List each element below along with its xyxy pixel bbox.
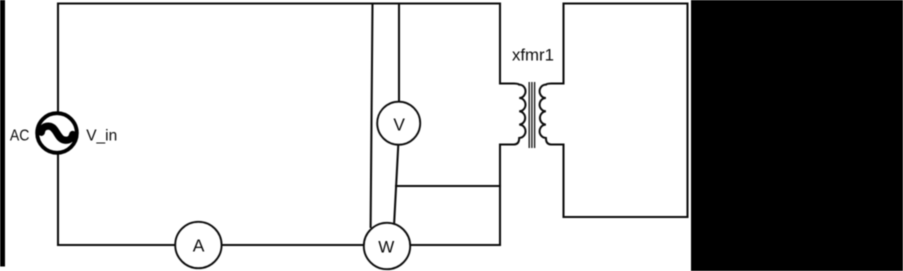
- ammeter A1: [175, 222, 221, 268]
- svg-text:AC: AC: [10, 128, 30, 145]
- wire node connector: [396, 185, 500, 187]
- wire bottom source to ammeter: [58, 244, 175, 246]
- wire wattmeter current tap: [371, 4, 373, 228]
- voltmeter V1: [377, 102, 420, 145]
- wire primary top vertical: [499, 4, 501, 84]
- wire secondary loop: [564, 4, 688, 218]
- svg-text:V_in: V_in: [86, 127, 117, 144]
- svg-text:xfmr1: xfmr1: [512, 46, 554, 65]
- transformer xfmr1 primary winding: [500, 84, 526, 145]
- transformer xfmr1 secondary winding: [540, 84, 564, 145]
- wire top bus: [58, 2, 500, 4]
- wire primary bottom vertical: [499, 145, 501, 246]
- wire ammeter to wattmeter: [222, 244, 364, 246]
- wire voltmeter bottom to wattmeter: [394, 145, 398, 226]
- transformer xfmr1 core: [529, 82, 534, 148]
- wattmeter W1: [364, 223, 410, 269]
- svg-text:A: A: [193, 236, 205, 256]
- wire left vertical upper: [57, 4, 59, 113]
- AC source V_in: [37, 113, 77, 153]
- svg-text:W: W: [378, 238, 394, 257]
- wire wattmeter to primary return: [410, 244, 500, 246]
- svg-text:V: V: [393, 115, 405, 135]
- wire left vertical lower: [57, 155, 59, 246]
- wire voltmeter top lead: [398, 4, 400, 103]
